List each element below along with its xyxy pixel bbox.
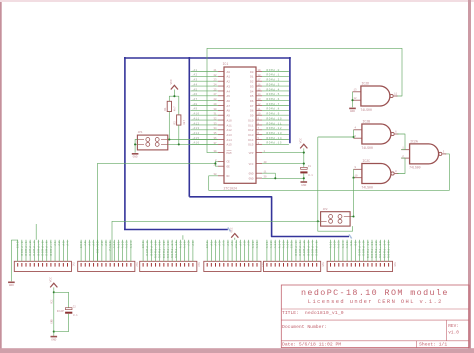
svg-text:74LS00: 74LS00	[361, 146, 373, 150]
svg-text:A4: A4	[227, 90, 231, 93]
wire R1 bottom to A15 net	[168, 112, 170, 140]
svg-text:ROMd.14: ROMd.14	[170, 241, 174, 259]
svg-text:10: 10	[355, 175, 359, 178]
svg-text:A6: A6	[227, 100, 231, 103]
svg-text:A11: A11	[227, 124, 232, 127]
svg-text:ROMd.5: ROMd.5	[267, 92, 280, 96]
ground GND at SV1	[8, 281, 15, 284]
IC1 CE pin	[218, 160, 224, 162]
power VCC symbol right of IC1	[300, 144, 307, 148]
node labels on SV3 pins	[142, 241, 195, 259]
nand IC2C 74LS00	[362, 164, 391, 184]
svg-text:ROMd.7: ROMd.7	[49, 241, 53, 256]
svg-text:VCC: VCC	[235, 241, 238, 249]
connector SV4 pins	[207, 263, 257, 267]
svg-text:ROMd.11: ROMd.11	[267, 121, 283, 125]
wire SV1 pin stubs	[18, 240, 68, 261]
svg-text:OE/CE: OE/CE	[96, 241, 100, 254]
svg-text:VCC: VCC	[249, 163, 254, 166]
svg-text:SV2: SV2	[135, 262, 138, 267]
power VCC above IC2P	[50, 283, 57, 287]
svg-text:ROMd.13: ROMd.13	[378, 241, 382, 259]
svg-text:ROMd.11: ROMd.11	[370, 241, 374, 259]
bus bottom-left horizontal (open end)	[124, 228, 228, 231]
svg-text:TITLE:: TITLE:	[282, 310, 299, 316]
svg-text:REV:: REV:	[448, 324, 459, 329]
svg-text:GND: GND	[51, 338, 56, 341]
svg-text:IC1: IC1	[223, 62, 229, 66]
svg-text:D2: D2	[250, 81, 254, 84]
svg-text:74LS00: 74LS00	[409, 166, 421, 170]
svg-text:VCC: VCC	[299, 138, 302, 143]
wire SV1 tall stub	[35, 224, 37, 240]
svg-text:A13: A13	[338, 241, 341, 249]
wire IC2D inputs tied to GND	[352, 92, 354, 100]
wire SV4 pin stubs	[207, 240, 257, 261]
svg-text:13: 13	[258, 98, 262, 101]
svg-text:Document Number:: Document Number:	[282, 324, 327, 330]
svg-text:ROMd.1: ROMd.1	[298, 241, 302, 256]
svg-text:74LS00: 74LS00	[361, 185, 373, 189]
bus left vertical	[123, 57, 126, 230]
op IC1 27C1024 EPROM body	[224, 67, 256, 183]
svg-text:19: 19	[258, 69, 262, 72]
svg-text:SV3: SV3	[197, 262, 200, 267]
svg-text:A1: A1	[210, 241, 213, 246]
wire IC2B output to IC2A input 1	[397, 134, 405, 150]
svg-text:ROMd.0: ROMd.0	[267, 68, 280, 72]
svg-text:A10: A10	[113, 241, 116, 249]
svg-text:ROMd.11: ROMd.11	[158, 241, 162, 259]
svg-text:R2: R2	[173, 121, 176, 125]
svg-text:A1: A1	[227, 76, 231, 79]
wire SV6 pin stubs	[331, 240, 389, 261]
svg-text:A5: A5	[227, 95, 231, 98]
svg-text:D0: D0	[250, 71, 254, 74]
svg-text:12: 12	[354, 97, 358, 100]
svg-text:C2: C2	[73, 306, 77, 309]
node junction R2/A16	[178, 143, 180, 145]
svg-text:A7: A7	[92, 241, 95, 246]
node labels on SV4 pins	[206, 241, 259, 249]
svg-text:A10: A10	[252, 241, 255, 249]
svg-text:ROMd.13: ROMd.13	[166, 241, 170, 259]
svg-text:A14: A14	[130, 241, 133, 249]
wire SV3 pin stubs	[143, 240, 193, 261]
wire SV3 tall stub	[182, 235, 184, 240]
svg-text:Licensed under CERN OHL v.1.2: Licensed under CERN OHL v.1.2	[308, 299, 443, 305]
svg-text:ROMd.12: ROMd.12	[374, 241, 378, 259]
wire JP1 left pins to GND	[135, 140, 137, 145]
connector SV5 pins	[267, 263, 317, 267]
connector SV3 pins	[143, 263, 193, 267]
svg-text:IC2A: IC2A	[410, 139, 418, 143]
svg-text:A13: A13	[126, 241, 129, 249]
svg-text:A15: A15	[346, 241, 349, 249]
connector SV4 pin header body	[204, 261, 261, 271]
connector SV3 pin header body	[140, 261, 197, 271]
svg-text:A16: A16	[184, 241, 187, 249]
IC1 OE pin	[218, 165, 224, 167]
IC1 VPP pin	[256, 152, 262, 154]
ground GND below C1	[301, 180, 308, 183]
svg-text:ROMd.1: ROMd.1	[24, 241, 28, 256]
svg-text:.A13: .A13	[192, 127, 200, 130]
svg-text:.A12: .A12	[192, 122, 200, 125]
svg-text:A3: A3	[62, 241, 65, 246]
svg-text:D13: D13	[248, 134, 253, 137]
svg-text:0.1: 0.1	[308, 174, 313, 177]
svg-text:Date: 5/6/18 11:02 PM: Date: 5/6/18 11:02 PM	[282, 342, 341, 348]
svg-text:A3: A3	[219, 241, 222, 246]
svg-text:nedo1810_v1_0: nedo1810_v1_0	[305, 310, 344, 316]
svg-text:ROMd.15: ROMd.15	[267, 141, 283, 145]
node junction R1/A15	[168, 138, 170, 140]
wire JP2 under-path to bottom-right pin	[318, 221, 353, 231]
svg-text:ROMd.15: ROMd.15	[174, 241, 178, 259]
IC1 VCC pin	[256, 163, 262, 165]
svg-text:A13: A13	[227, 134, 232, 137]
svg-text:13: 13	[354, 89, 358, 92]
jumper JP2 body	[321, 212, 351, 226]
svg-text:A2: A2	[188, 241, 191, 246]
svg-text:A9: A9	[105, 241, 108, 246]
svg-text:A4: A4	[223, 241, 226, 246]
svg-text:17: 17	[258, 79, 262, 82]
svg-text:A9: A9	[227, 115, 231, 118]
svg-text:ROMd.5: ROMd.5	[315, 241, 319, 256]
svg-text:R1: R1	[164, 107, 167, 111]
svg-text:ROMd.8: ROMd.8	[357, 241, 361, 256]
svg-text:ROMd.2: ROMd.2	[267, 78, 280, 82]
svg-text:D7: D7	[250, 105, 254, 108]
ground GND at IC2D inputs	[349, 107, 356, 110]
svg-text:D10: D10	[248, 119, 253, 122]
page border frame	[0, 0, 2, 353]
svg-text:GND: GND	[301, 184, 306, 187]
svg-text:SV6: SV6	[393, 262, 396, 267]
svg-text:A2: A2	[58, 241, 61, 246]
IC1 right pin names D0-D15	[248, 71, 253, 147]
svg-text:A11: A11	[117, 241, 120, 249]
svg-text:A12: A12	[227, 129, 232, 132]
svg-text:A5: A5	[227, 241, 230, 246]
svg-text:A2: A2	[227, 81, 231, 84]
svg-text:D14: D14	[248, 139, 253, 142]
wire data nets IC1 to bus	[262, 72, 289, 145]
svg-text:ROMd.8: ROMd.8	[145, 241, 149, 256]
connector SV5 pin header body	[264, 261, 321, 271]
svg-text:IC2C: IC2C	[362, 159, 370, 163]
svg-text:A12: A12	[122, 241, 125, 249]
svg-text:JP1: JP1	[138, 131, 143, 134]
svg-text:ROMd.2: ROMd.2	[28, 241, 32, 256]
capacitor C1	[301, 167, 308, 169]
svg-text:ROMd.14: ROMd.14	[267, 136, 283, 140]
svg-text:A14: A14	[342, 241, 345, 249]
IC1 right pin numbers	[258, 69, 262, 145]
IC1 NC pin	[218, 175, 224, 177]
node labels on SV6 pins	[329, 241, 390, 259]
svg-text:A11: A11	[256, 241, 259, 249]
wire R2 bottom to A16 net	[178, 125, 180, 144]
IC1 left address pin stubs	[218, 72, 224, 145]
svg-text:A6: A6	[231, 241, 234, 246]
svg-text:v1.0: v1.0	[448, 331, 459, 336]
svg-text:16: 16	[258, 83, 262, 86]
svg-text:IC2P: IC2P	[57, 310, 64, 313]
svg-text:ROMd.6: ROMd.6	[267, 97, 280, 101]
nand IC2D 74LS00	[361, 86, 390, 106]
bus A[1..16] top horizontal	[124, 56, 291, 59]
svg-text:IC2B: IC2B	[362, 119, 370, 123]
IC1 GND pin 11	[256, 172, 262, 174]
svg-text:ROMd.4: ROMd.4	[36, 241, 40, 256]
svg-text:Sheet: 1/1: Sheet: 1/1	[419, 342, 447, 348]
svg-text:A0: A0	[227, 71, 231, 74]
svg-text:A3: A3	[227, 85, 231, 88]
svg-text:IC2D: IC2D	[361, 81, 369, 85]
svg-text:D1: D1	[250, 76, 254, 79]
wire IC2C output to IC2A input 2	[397, 158, 405, 173]
IC1 GND pin 30	[256, 177, 262, 179]
svg-text:CE: CE	[227, 161, 231, 164]
svg-text:D9: D9	[250, 115, 254, 118]
wire branch to C2	[54, 292, 69, 307]
svg-text:.A10: .A10	[192, 113, 200, 116]
wire JP1 to IC1 A14/A15 nets	[168, 139, 218, 141]
node labels on SV5 pins	[266, 241, 319, 256]
svg-text:A3: A3	[192, 241, 195, 246]
svg-text:D11: D11	[248, 124, 253, 127]
svg-text:ROMd.10: ROMd.10	[153, 241, 157, 259]
svg-text:ROMd.1: ROMd.1	[267, 73, 280, 77]
svg-text:ROMd.10: ROMd.10	[366, 241, 370, 259]
svg-text:SV5: SV5	[321, 262, 324, 267]
svg-text:ROMd.4: ROMd.4	[310, 241, 314, 256]
wire IC2C input tie	[353, 169, 355, 177]
svg-text:GND: GND	[249, 173, 254, 176]
svg-text:ROMd.12: ROMd.12	[267, 126, 283, 130]
svg-text:GND: GND	[9, 284, 14, 287]
svg-text:D15: D15	[248, 144, 253, 147]
svg-text:A15: A15	[227, 144, 232, 147]
svg-text:D12: D12	[248, 129, 253, 132]
IC1 left pin numbers	[213, 69, 217, 145]
svg-text:C1: C1	[308, 165, 312, 168]
svg-text:A12: A12	[334, 241, 337, 249]
svg-text:.A6: .A6	[192, 93, 198, 96]
svg-text:ROMd.9: ROMd.9	[362, 241, 366, 256]
IC1 left pin names A0-A15	[227, 71, 232, 147]
svg-text:.A1: .A1	[192, 69, 198, 72]
nand IC2A 74LS00	[410, 144, 439, 164]
wire JP2 left net up to IC2B input line	[317, 137, 319, 221]
svg-text:A11: A11	[329, 241, 332, 249]
svg-text:JP2: JP2	[323, 208, 328, 211]
svg-text:A10: A10	[227, 119, 232, 122]
svg-text:ROMd.8: ROMd.8	[267, 107, 280, 111]
svg-text:GND: GND	[291, 241, 294, 249]
svg-text:74LS00: 74LS00	[360, 108, 372, 112]
wire VPP and VCC pins to VCC rail	[262, 152, 304, 154]
svg-text:GND: GND	[51, 319, 54, 324]
wire C2 bottom to GND	[54, 314, 69, 332]
capacitor C2	[65, 308, 72, 310]
connector SV2 pin header body	[78, 261, 135, 271]
svg-text:A14: A14	[278, 241, 281, 249]
connector SV2 pins	[81, 263, 131, 267]
wire long net from SV2 to JP2 left pin	[112, 221, 321, 261]
svg-text:.A11: .A11	[192, 117, 200, 120]
jumper JP1 body	[137, 135, 167, 150]
svg-text:GND: GND	[17, 241, 20, 249]
svg-text:ROMd.13: ROMd.13	[267, 131, 283, 135]
svg-text:D6: D6	[250, 100, 254, 103]
svg-text:A5: A5	[84, 241, 87, 246]
connector SV6 pins	[331, 263, 389, 267]
bus address vertical at IC left	[188, 57, 191, 197]
svg-text:A8: A8	[243, 241, 246, 246]
wire VCC to resistor tops	[173, 90, 175, 97]
svg-text:ROMd.7: ROMd.7	[267, 102, 280, 106]
svg-text:GND: GND	[142, 241, 145, 249]
svg-text:PAGE: PAGE	[109, 241, 112, 251]
svg-text:VCC: VCC	[170, 79, 173, 84]
connector SV6 pin header body	[327, 261, 392, 271]
node junction VCC/R1/R2	[173, 95, 175, 97]
wire IC1 GND pins join	[262, 173, 275, 178]
svg-text:OE: OE	[354, 241, 357, 246]
wire C1 bottom to GND rail	[303, 173, 305, 181]
wire address nets bus to IC1	[191, 72, 219, 145]
svg-text:SV1: SV1	[72, 262, 75, 267]
svg-text:A6: A6	[88, 241, 91, 246]
svg-text:ROMd.9: ROMd.9	[267, 112, 280, 116]
svg-text:NC: NC	[227, 175, 231, 178]
svg-text:D3: D3	[250, 85, 254, 88]
power VCC at SV4	[231, 234, 238, 238]
svg-text:GND: GND	[350, 110, 355, 113]
bus data vertical at IC right	[288, 57, 291, 143]
svg-text:A8: A8	[101, 241, 104, 246]
node labels .A1-.A16	[192, 69, 200, 145]
nand IC2B 74LS00	[362, 124, 391, 144]
bus lower route to right connectors	[189, 197, 349, 237]
svg-text:A4: A4	[66, 241, 69, 246]
svg-text:ROMd.3: ROMd.3	[32, 241, 36, 256]
svg-text:VCC: VCC	[51, 299, 54, 304]
svg-text:.A4: .A4	[192, 83, 198, 86]
svg-text:ROMd.0: ROMd.0	[294, 241, 298, 256]
wire VCC rail IC2P	[53, 287, 55, 336]
resistor R2	[177, 115, 181, 125]
svg-text:A9: A9	[248, 241, 251, 246]
wire SV1 pin1 to GND	[11, 240, 17, 281]
wire JP2 top net to IC2B inputs	[318, 136, 354, 138]
svg-text:.A9: .A9	[192, 108, 198, 111]
node labels ROMd.0-ROMd.15	[267, 68, 283, 145]
ground GND below IC2P	[51, 335, 58, 338]
svg-text:ROMd.14: ROMd.14	[382, 241, 386, 259]
svg-text:ROMd.15: ROMd.15	[387, 241, 391, 259]
title block frame	[281, 285, 469, 348]
node labels on SV1 pins	[17, 241, 70, 256]
svg-text:ROMd.2: ROMd.2	[302, 241, 306, 256]
wire IC2B input tie	[353, 130, 355, 138]
svg-text:10: 10	[258, 113, 262, 116]
svg-text:CE: CE	[350, 241, 353, 246]
svg-text:12: 12	[258, 103, 262, 106]
wire SV4 VCC stub	[234, 238, 236, 240]
connector SV1 pins	[18, 263, 68, 267]
svg-text:VCC: VCC	[49, 277, 52, 282]
svg-text:GND: GND	[206, 241, 209, 249]
svg-text:4k7: 4k7	[173, 106, 177, 111]
svg-text:11: 11	[258, 108, 262, 111]
svg-text:nedoPC-18.10 ROM module: nedoPC-18.10 ROM module	[301, 288, 449, 298]
svg-text:14: 14	[258, 93, 262, 96]
svg-text:ROMd.3: ROMd.3	[306, 241, 310, 256]
svg-text:ROMd.10: ROMd.10	[267, 116, 283, 120]
node labels on SV2 pins	[80, 241, 133, 254]
svg-text:A15: A15	[179, 241, 182, 249]
svg-text:.A14: .A14	[192, 132, 200, 135]
svg-text:11: 11	[394, 92, 398, 95]
svg-text:GND: GND	[133, 156, 138, 159]
svg-text:A8: A8	[227, 110, 231, 113]
svg-text:D5: D5	[250, 95, 254, 98]
svg-text:A12: A12	[270, 241, 273, 249]
wire SV2 pin stubs	[81, 240, 131, 261]
node junction JP2 right	[352, 215, 354, 217]
svg-text:A11: A11	[266, 241, 269, 249]
svg-text:A15: A15	[282, 241, 285, 249]
svg-text:.A7: .A7	[192, 98, 198, 101]
svg-text:VCC: VCC	[230, 227, 233, 232]
svg-text:A14: A14	[227, 139, 232, 142]
connector SV1 pin header body	[14, 261, 71, 271]
svg-text:VPP: VPP	[249, 152, 254, 155]
svg-text:.A3: .A3	[192, 79, 198, 82]
svg-text:A1: A1	[54, 241, 57, 246]
svg-text:D4: D4	[250, 90, 254, 93]
svg-text:15: 15	[258, 88, 262, 91]
svg-text:ROMd.12: ROMd.12	[162, 241, 166, 259]
svg-text:ROMd.9: ROMd.9	[149, 241, 153, 256]
wire SV5 pin stubs	[267, 240, 317, 261]
resistor R1	[167, 101, 171, 111]
power VCC symbol above R1/R2	[171, 85, 178, 89]
svg-text:PGM: PGM	[227, 152, 232, 155]
svg-text:A7: A7	[239, 241, 242, 246]
svg-text:OE: OE	[227, 166, 231, 169]
IC1 right data pin stubs	[256, 72, 262, 145]
wire CE/OE tie and net to connector SV2	[215, 161, 218, 166]
svg-text:D8: D8	[250, 110, 254, 113]
ground GND at JP1	[132, 152, 139, 155]
svg-text:ROMd.6: ROMd.6	[45, 241, 49, 256]
svg-text:A7: A7	[227, 105, 231, 108]
svg-text:ROMd.5: ROMd.5	[41, 241, 45, 256]
svg-text:GND: GND	[249, 177, 254, 180]
svg-text:ROMd.4: ROMd.4	[267, 87, 280, 91]
svg-text:.A2: .A2	[192, 74, 198, 77]
svg-text:A2: A2	[214, 241, 217, 246]
svg-text:ROMd.0: ROMd.0	[20, 241, 24, 256]
wire NC pin to IC2A output loop	[209, 154, 450, 190]
svg-text:.A8: .A8	[192, 103, 198, 106]
